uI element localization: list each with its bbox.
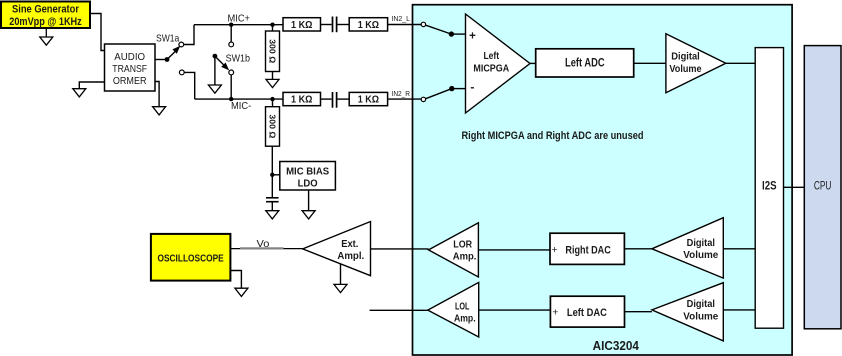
svg-text:AUDIO: AUDIO — [114, 51, 145, 63]
wire digital volume 3 to I2S — [723, 309, 755, 311]
node mic bias junction — [270, 173, 274, 177]
wire LDO to ground — [308, 190, 310, 211]
block CPU — [804, 46, 841, 329]
switch input routing IN2_L — [426, 25, 466, 37]
svg-text:Left DAC: Left DAC — [567, 307, 607, 319]
wire oscilloscope to ground — [230, 271, 241, 289]
wire ext ampl to ground — [340, 264, 342, 284]
svg-text:Digital: Digital — [687, 298, 715, 310]
chip AIC3204 body — [413, 5, 793, 355]
svg-text:CPU: CPU — [814, 181, 832, 193]
svg-text:Vo: Vo — [257, 238, 270, 250]
wire SW1a lower throw to MIC- — [184, 72, 195, 99]
wire LOR amp to Right DAC — [478, 249, 549, 251]
svg-text:Left ADC: Left ADC — [565, 58, 605, 70]
wire Left ADC to digital volume 1 — [634, 62, 666, 64]
svg-text:300 Ω: 300 Ω — [268, 39, 278, 63]
resistor R4 1 Kohm — [283, 92, 321, 105]
switch SW1b — [213, 42, 251, 75]
amp LOR — [429, 223, 479, 277]
wire I2S to CPU — [784, 186, 805, 188]
svg-text:20mVpp @ 1KHz: 20mVpp @ 1KHz — [9, 16, 82, 28]
svg-text:Ext.: Ext. — [341, 238, 358, 250]
capacitor C1 — [333, 17, 337, 33]
ground (LDO) — [302, 211, 315, 219]
svg-text:+: + — [552, 307, 558, 319]
wire digital volume 1 to I2S — [726, 62, 755, 64]
switch input routing IN2_R — [426, 86, 466, 99]
svg-text:Amp.: Amp. — [454, 312, 476, 324]
resistor R5 1 Kohm — [349, 92, 387, 105]
ground (oscilloscope) — [235, 288, 248, 296]
wire MIC+ to SW1b upper throw — [230, 25, 232, 42]
op-amp Left MICPGA — [466, 14, 531, 113]
resistor R3 1 Kohm — [349, 18, 387, 31]
svg-text:-: - — [470, 80, 474, 94]
svg-text:MIC BIAS: MIC BIAS — [286, 166, 329, 178]
svg-text:ORMER: ORMER — [113, 75, 147, 87]
svg-text:Volume: Volume — [683, 311, 718, 323]
svg-text:LOL: LOL — [455, 300, 470, 312]
wire SW1a upper throw to MIC+ — [184, 25, 194, 45]
ground (transformer left) — [73, 89, 86, 97]
ground (SW1b) — [208, 85, 221, 93]
svg-text:Right MICPGA and Right ADC are: Right MICPGA and Right ADC are unused — [462, 130, 644, 142]
svg-text:1 KΩ: 1 KΩ — [291, 20, 312, 31]
resistor R2 1 Kohm — [283, 18, 321, 31]
svg-text:SW1b: SW1b — [226, 52, 251, 64]
oscilloscope — [151, 234, 231, 281]
svg-text:Ampl.: Ampl. — [337, 250, 364, 262]
resistor R6 300 ohm — [266, 99, 280, 198]
switch SW1a — [156, 33, 184, 62]
svg-text:MIC-: MIC- — [231, 100, 252, 112]
svg-text:Digital: Digital — [687, 237, 715, 249]
wire ext ampl to LOR amp — [371, 248, 429, 250]
amp digital volume 2 (right DAC) — [652, 218, 723, 278]
wire R4 to C2 — [321, 98, 332, 100]
wire C2 to R5 — [338, 98, 350, 100]
wire sine generator to transformer — [90, 14, 105, 51]
wire Vo — [230, 248, 302, 250]
svg-text:SW1a: SW1a — [156, 33, 179, 45]
wire SW1b lower throw to MIC- — [230, 75, 232, 99]
svg-text:+: + — [469, 31, 476, 43]
capacitor C2 — [333, 92, 337, 108]
pin IN2_R — [421, 97, 425, 101]
ground (transformer right) — [153, 107, 166, 115]
svg-text:I2S: I2S — [762, 179, 777, 193]
regulator MIC BIAS LDO — [280, 162, 336, 191]
svg-text:+: + — [552, 244, 558, 256]
sine generator source — [1, 2, 90, 29]
svg-text:Volume: Volume — [683, 249, 718, 261]
wire LOL amp to Left DAC — [479, 309, 551, 311]
ground (R1) — [266, 79, 279, 87]
amp LOL — [428, 282, 479, 337]
wire MICPGA to Left ADC — [530, 62, 536, 64]
svg-text:IN2_R: IN2_R — [392, 89, 411, 98]
svg-text:Digital: Digital — [671, 50, 700, 62]
svg-text:LDO: LDO — [298, 178, 318, 190]
capacitor C3 — [266, 198, 279, 211]
wire junction to LDO — [272, 174, 280, 176]
wire R5 to IN2_R pin — [388, 98, 422, 100]
amplifier Ext. Ampl. — [303, 222, 371, 276]
wire transformer right to ground — [155, 82, 159, 107]
wire R2 to C1 — [321, 24, 332, 26]
block Right DAC — [550, 233, 624, 264]
svg-text:1 KΩ: 1 KΩ — [358, 20, 379, 31]
block Left DAC — [550, 296, 624, 327]
node MIC- — [195, 97, 283, 112]
svg-text:Amp.: Amp. — [453, 251, 477, 263]
svg-text:MIC+: MIC+ — [228, 12, 251, 24]
wire digital volume 2 to I2S — [723, 248, 755, 250]
block I2S — [755, 48, 783, 329]
amp digital volume 1 (ADC) — [666, 34, 726, 93]
svg-text:Left: Left — [483, 50, 499, 62]
SW1a lower throw contact — [179, 70, 184, 75]
wire Right DAC to digital volume 2 — [624, 248, 652, 250]
svg-text:OSCILLOSCOPE: OSCILLOSCOPE — [158, 252, 224, 264]
wire Left DAC to digital volume 3 — [625, 311, 652, 313]
svg-text:TRANSF: TRANSF — [112, 63, 147, 75]
svg-text:Volume: Volume — [669, 63, 701, 75]
svg-text:IN2_L: IN2_L — [392, 14, 411, 23]
wire SW1b pole to ground — [214, 56, 216, 85]
svg-text:Right DAC: Right DAC — [565, 244, 610, 256]
wire R3 to IN2_L pin — [388, 24, 422, 26]
ground (sine generator) — [40, 28, 53, 45]
block Left ADC — [536, 49, 634, 77]
wire transformer left to ground — [79, 82, 104, 89]
audio transformer T1 — [105, 44, 156, 91]
amp digital volume 3 (left DAC) — [652, 283, 723, 341]
svg-text:1 KΩ: 1 KΩ — [358, 95, 379, 106]
wire LOL output stub — [370, 309, 428, 311]
svg-text:1 KΩ: 1 KΩ — [291, 95, 312, 106]
ground (ext ampl) — [334, 284, 347, 292]
svg-text:Sine Generator: Sine Generator — [12, 4, 80, 16]
ground (C3) — [266, 211, 279, 219]
svg-text:AIC3204: AIC3204 — [593, 339, 639, 353]
resistor R1 300 ohm — [266, 25, 280, 80]
svg-text:LOR: LOR — [453, 239, 472, 251]
wire transformer to SW1a pole — [155, 59, 167, 61]
pin IN2_L — [421, 22, 425, 26]
svg-text:MICPGA: MICPGA — [473, 63, 509, 75]
wire C1 to R3 — [338, 24, 350, 26]
node MIC+ — [194, 12, 283, 27]
svg-text:300 Ω: 300 Ω — [268, 114, 278, 138]
